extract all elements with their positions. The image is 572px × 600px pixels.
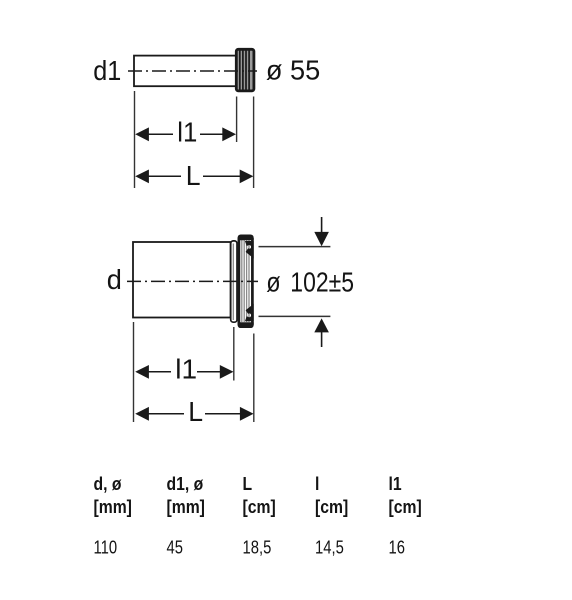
svg-text:102±5: 102±5 xyxy=(290,267,354,298)
svg-text:L: L xyxy=(186,159,201,191)
svg-text:l1: l1 xyxy=(175,354,197,385)
svg-text:[cm]: [cm] xyxy=(315,496,348,518)
svg-text:L: L xyxy=(243,473,253,495)
svg-text:[mm]: [mm] xyxy=(167,496,205,518)
svg-text:l: l xyxy=(315,473,319,495)
svg-text:18,5: 18,5 xyxy=(243,537,272,558)
svg-text:16: 16 xyxy=(389,537,405,558)
svg-text:ø: ø xyxy=(266,267,281,297)
svg-text:d: d xyxy=(107,264,122,295)
svg-text:d1: d1 xyxy=(93,55,121,87)
svg-text:l1: l1 xyxy=(177,117,197,148)
svg-text:45: 45 xyxy=(167,537,183,558)
svg-text:d1, ø: d1, ø xyxy=(167,473,204,495)
svg-text:110: 110 xyxy=(94,537,118,558)
svg-text:l1: l1 xyxy=(389,473,403,495)
svg-text:[cm]: [cm] xyxy=(389,496,422,518)
svg-text:d, ø: d, ø xyxy=(94,473,122,495)
svg-text:[mm]: [mm] xyxy=(94,496,132,518)
svg-text:ø 55: ø 55 xyxy=(266,54,320,85)
svg-text:L: L xyxy=(188,395,203,427)
svg-text:[cm]: [cm] xyxy=(243,496,276,518)
svg-text:14,5: 14,5 xyxy=(315,537,344,558)
